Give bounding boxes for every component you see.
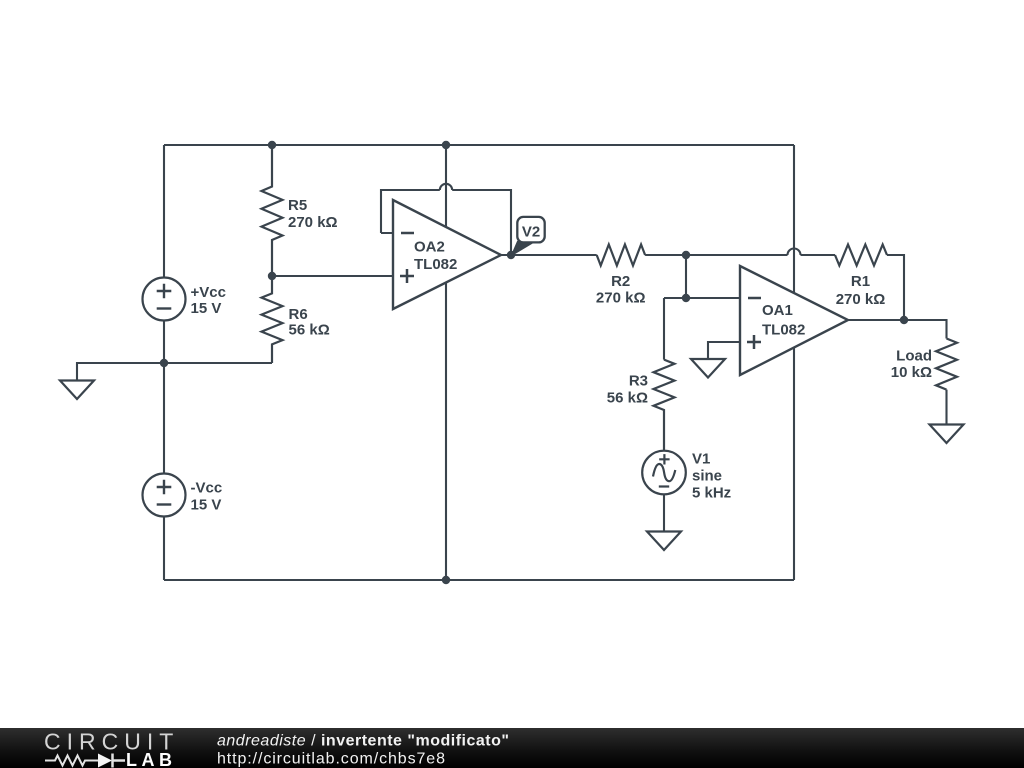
+Vcc minus sign — [157, 307, 172, 309]
svg-text:R6: R6 — [289, 306, 308, 323]
svg-text:270 kΩ: 270 kΩ — [596, 290, 646, 307]
ground symbol below Load — [930, 425, 964, 444]
wire hop on output row over x=794 — [788, 249, 801, 256]
-Vcc plus sign — [157, 480, 172, 495]
svg-text:R3: R3 — [629, 372, 648, 389]
junction dot R2 right node — [682, 251, 690, 259]
svg-text:LAB: LAB — [126, 750, 177, 768]
junction dot OA2 output — [507, 251, 515, 259]
wire right vertical rail — [793, 145, 795, 580]
svg-text:+Vcc: +Vcc — [191, 284, 226, 301]
wire hop right to R1 — [801, 254, 836, 256]
svg-text:10 kΩ: 10 kΩ — [891, 364, 932, 381]
wire V1 bottom to ground — [663, 495, 665, 532]
svg-text:TL082: TL082 — [414, 256, 457, 273]
svg-text:TL082: TL082 — [762, 321, 805, 338]
wire OA2 output row — [501, 254, 597, 256]
resistor R6 zigzag — [262, 276, 283, 363]
V1 plus sign — [659, 454, 669, 464]
junction dot top rail x=446 — [442, 141, 450, 149]
wire OA2 feedback right segment — [452, 190, 511, 255]
svg-text:V1: V1 — [692, 450, 710, 467]
junction dot bottom rail x=446 — [442, 576, 450, 584]
svg-text:56 kΩ: 56 kΩ — [607, 390, 648, 407]
wire OA1 output row — [848, 320, 947, 339]
wire R2 right to node — [645, 254, 686, 256]
svg-text:OA1: OA1 — [762, 302, 793, 319]
voltage source V2(+Vcc) circle — [143, 278, 186, 321]
svg-text:http://circuitlab.com/chbs7e8: http://circuitlab.com/chbs7e8 — [217, 751, 446, 768]
svg-text:R1: R1 — [851, 273, 870, 290]
svg-text:56 kΩ: 56 kΩ — [289, 322, 330, 339]
junction dot OA1 minus node — [682, 294, 690, 302]
ground symbol at OA1 plus input — [691, 359, 725, 378]
wire ground stub bottom-left — [77, 363, 272, 381]
logo diode bar and lead — [113, 754, 126, 768]
V1 sine wave — [653, 464, 675, 481]
voltage source V3(-Vcc) circle — [143, 474, 186, 517]
wire Load bottom to ground — [945, 390, 947, 425]
op-amp OA1 plus mark — [747, 335, 761, 349]
svg-text:andreadiste / invertente "modi: andreadiste / invertente "modificato" — [217, 733, 509, 750]
wire left rail upper segment — [163, 145, 165, 278]
wire node to hop left — [686, 254, 788, 256]
op-amp OA1 minus mark — [748, 297, 761, 300]
resistor R3 zigzag — [654, 360, 675, 451]
wire bottom rail — [164, 579, 794, 581]
V1 minus sign — [659, 485, 669, 487]
wire middle vertical (x=446) — [445, 145, 447, 580]
+Vcc plus sign — [157, 284, 172, 299]
junction dot left rail ground — [160, 359, 168, 367]
op-amp OA2 plus mark — [400, 269, 414, 283]
-Vcc minus sign — [157, 503, 172, 505]
junction dot top rail x=272 — [268, 141, 276, 149]
junction dot R5-R6 node — [268, 272, 276, 280]
voltage source V1 sine circle — [642, 451, 686, 495]
svg-text:15 V: 15 V — [191, 496, 222, 513]
node label V2 box — [517, 217, 544, 243]
ground symbol bottom-left — [60, 381, 94, 400]
node label V2 tail — [512, 242, 532, 256]
ground symbol below V1 — [647, 532, 681, 551]
wire node 686 vertical drop — [685, 255, 687, 298]
wire R1 right lead and down to output node — [887, 255, 904, 320]
resistor R5 zigzag — [262, 145, 283, 276]
resistor R1 zigzag — [835, 245, 887, 266]
wire hop on OA2 feedback over x=446 — [440, 184, 452, 190]
svg-text:V2: V2 — [522, 224, 540, 241]
resistor R2 zigzag — [597, 245, 645, 266]
svg-text:5 kHz: 5 kHz — [692, 484, 731, 501]
svg-text:15 V: 15 V — [191, 300, 222, 317]
junction dot OA1 output node — [900, 316, 908, 324]
op-amp OA2 body — [393, 200, 501, 309]
svg-text:sine: sine — [692, 467, 722, 484]
wire OA2 feedback left segment — [381, 190, 440, 233]
op-amp OA2 minus mark — [401, 232, 414, 235]
svg-text:R5: R5 — [288, 197, 307, 214]
svg-text:270 kΩ: 270 kΩ — [836, 291, 886, 308]
svg-text:-Vcc: -Vcc — [191, 480, 223, 497]
op-amp OA1 body — [740, 266, 848, 375]
wire R5-R6 node to OA2 plus input — [272, 275, 393, 277]
wire OA1 plus input to ground — [708, 342, 740, 359]
wire top rail — [164, 144, 794, 146]
svg-text:R2: R2 — [611, 273, 630, 290]
resistor Load zigzag — [936, 339, 957, 390]
svg-text:OA2: OA2 — [414, 238, 445, 255]
svg-text:270 kΩ: 270 kΩ — [288, 214, 338, 231]
svg-text:Load: Load — [896, 347, 932, 364]
logo diode triangle — [98, 754, 112, 768]
wire R3 top to OA1 minus input — [664, 298, 740, 360]
wire left rail lower segment — [163, 517, 165, 581]
logo resistor-diode squiggle — [45, 756, 98, 766]
wire left rail middle segment — [163, 321, 165, 474]
